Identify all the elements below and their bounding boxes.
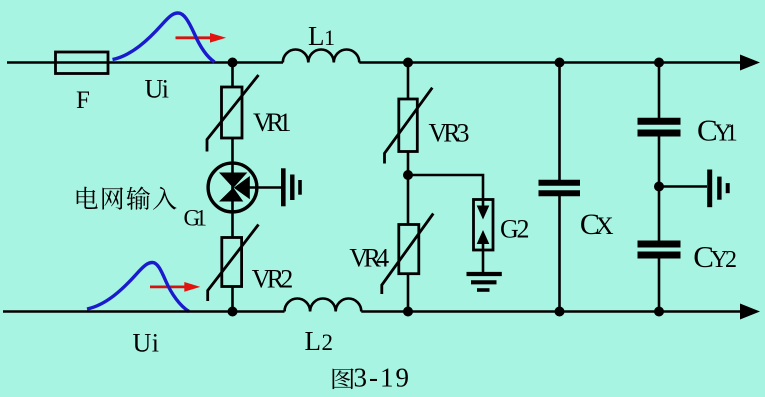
svg-text:G2: G2: [500, 215, 530, 244]
node top branch1: [228, 58, 238, 68]
arrester G1: [208, 163, 257, 212]
svg-text:X: X: [596, 213, 614, 240]
node bottom branch2: [403, 307, 413, 317]
wire top line R: [359, 61, 742, 64]
svg-text:Ui: Ui: [145, 75, 170, 104]
inductor L2: [285, 299, 362, 312]
svg-text:VR4: VR4: [349, 244, 389, 273]
inductor L1: [283, 50, 360, 63]
fuse F: [56, 52, 109, 74]
arrow red top: [176, 36, 212, 39]
wire branch1 vertical top: [231, 63, 234, 88]
label 电网输入: [77, 187, 98, 209]
capacitor CX: [539, 183, 581, 194]
svg-text:VR2: VR2: [252, 265, 293, 294]
wire bottom line L: [3, 310, 285, 313]
wire branch1 vertical bottom: [231, 287, 234, 312]
chassis ground (G1): [283, 168, 300, 206]
svg-text:1: 1: [324, 25, 335, 50]
earth ground (G2): [467, 274, 502, 290]
node mid branch2: [403, 170, 413, 180]
wire G1 to ground: [249, 186, 282, 189]
capacitor CY1: [638, 121, 681, 133]
svg-text:G1: G1: [184, 206, 208, 231]
wire junction to G2: [408, 175, 483, 200]
node bottom branch4: [654, 307, 664, 317]
varistor VR2: [222, 238, 242, 287]
wire branch2 vertical: [407, 63, 410, 100]
node bottom branch3: [555, 307, 565, 317]
wire branch3 vertical: [558, 63, 561, 181]
wire top line L: [7, 61, 233, 64]
caption 图3-19: [333, 368, 354, 389]
node bottom branch1: [228, 307, 238, 317]
node mid branch4: [654, 182, 664, 192]
arrester G2: [474, 200, 494, 251]
wire bottom line R: [361, 310, 742, 313]
svg-text:2: 2: [322, 330, 334, 355]
svg-text:3-19: 3-19: [354, 363, 410, 393]
node top branch3: [555, 58, 565, 68]
surge curve bottom Ui: [87, 263, 189, 312]
wire CY junction to ground: [659, 185, 707, 188]
svg-text:F: F: [76, 87, 90, 114]
varistor VR1: [231, 138, 234, 238]
node top branch4: [654, 58, 664, 68]
svg-text:VR3: VR3: [429, 119, 470, 148]
svg-text:L: L: [305, 326, 322, 356]
surge curve top Ui: [113, 13, 215, 62]
svg-text:VR1: VR1: [253, 108, 292, 137]
varistor VR4: [399, 225, 419, 274]
wire branch4 vertical: [658, 63, 661, 119]
svg-text:Y1: Y1: [714, 120, 738, 146]
node top branch2: [403, 58, 413, 68]
arrow top right: [740, 55, 760, 71]
varistor VR3: [399, 99, 418, 152]
arrow red bottom: [150, 285, 186, 288]
svg-text:L: L: [308, 21, 325, 51]
svg-text:Y2: Y2: [711, 247, 738, 273]
arrow bottom right: [740, 304, 760, 320]
svg-text:Ui: Ui: [133, 329, 160, 358]
capacitor CY2: [638, 244, 681, 255]
chassis ground (CY): [710, 170, 728, 208]
wire top line mid: [233, 61, 284, 64]
